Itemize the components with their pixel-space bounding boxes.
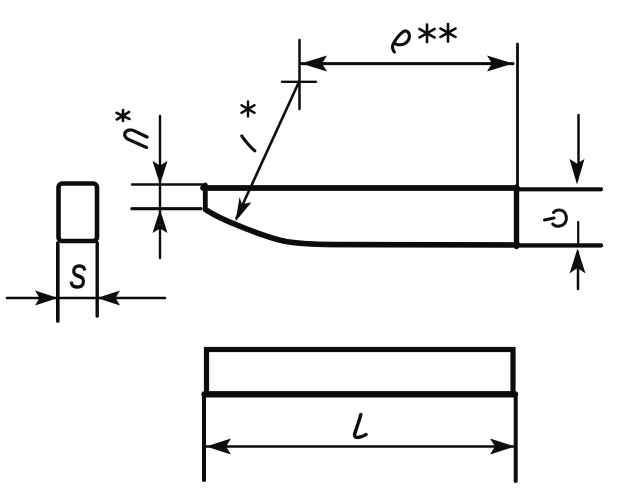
leader arrowhead (points down-left) <box>236 197 252 222</box>
label h (rotated) <box>125 130 147 148</box>
chisel body top edge <box>203 185 517 191</box>
label l (script ell) <box>355 415 366 438</box>
label b (rotated) <box>545 210 567 226</box>
arrowhead b bottom (points up) <box>570 249 586 274</box>
extension line S right <box>95 243 98 316</box>
extension line l right <box>514 394 518 481</box>
arrowhead h top (points down) <box>153 161 168 185</box>
chisel tip left face <box>203 185 208 210</box>
plan view bottom edge overdraw <box>205 391 516 397</box>
svg-text:S: S <box>70 258 87 295</box>
extension line b top <box>517 187 601 191</box>
extension line l left <box>202 394 206 480</box>
dimension line b bottom segment <box>577 252 580 289</box>
extension line b bottom <box>517 243 601 247</box>
arrowhead P right (points right) <box>487 56 513 72</box>
leader junction tick <box>282 81 316 83</box>
label 1 asterisk <box>242 102 255 117</box>
extension line h top (tip upper face) <box>132 183 206 185</box>
leader line to cutting face <box>237 83 299 218</box>
dimension line P <box>301 62 513 65</box>
chisel body bottom curved edge <box>207 211 518 246</box>
dimension line b middle segment <box>577 222 579 246</box>
end view rectangle (shank cross-section, left) <box>59 184 98 242</box>
dimension line b top segment <box>577 115 580 168</box>
dimension line l <box>206 445 515 447</box>
arrowhead S right (points left) <box>97 291 120 306</box>
dimension line h (vertical) <box>159 116 161 258</box>
plan view rectangle (bottom) <box>207 350 514 395</box>
extension line S left <box>56 243 60 321</box>
label P asterisk 2 <box>441 24 456 42</box>
label P asterisk 1 <box>420 25 435 43</box>
arrowhead h bottom (points up) <box>153 210 168 234</box>
label h asterisk <box>117 110 130 121</box>
arrowhead l right (points right) <box>490 439 515 455</box>
extension line P right (continues to body) <box>516 44 519 190</box>
arrowhead P left (points left) <box>301 56 327 72</box>
extension line P left <box>298 40 301 109</box>
dimension line S <box>7 297 165 300</box>
label 1 (on leader) <box>242 136 255 151</box>
extension line h bottom (tip lower face) <box>132 207 201 210</box>
arrowhead S left (points right) <box>35 291 58 306</box>
arrowhead b top (points down) <box>570 159 585 185</box>
arrowhead l left (points left) <box>206 439 231 455</box>
chisel body right edge <box>514 187 519 247</box>
label P (script rho) <box>392 31 409 52</box>
